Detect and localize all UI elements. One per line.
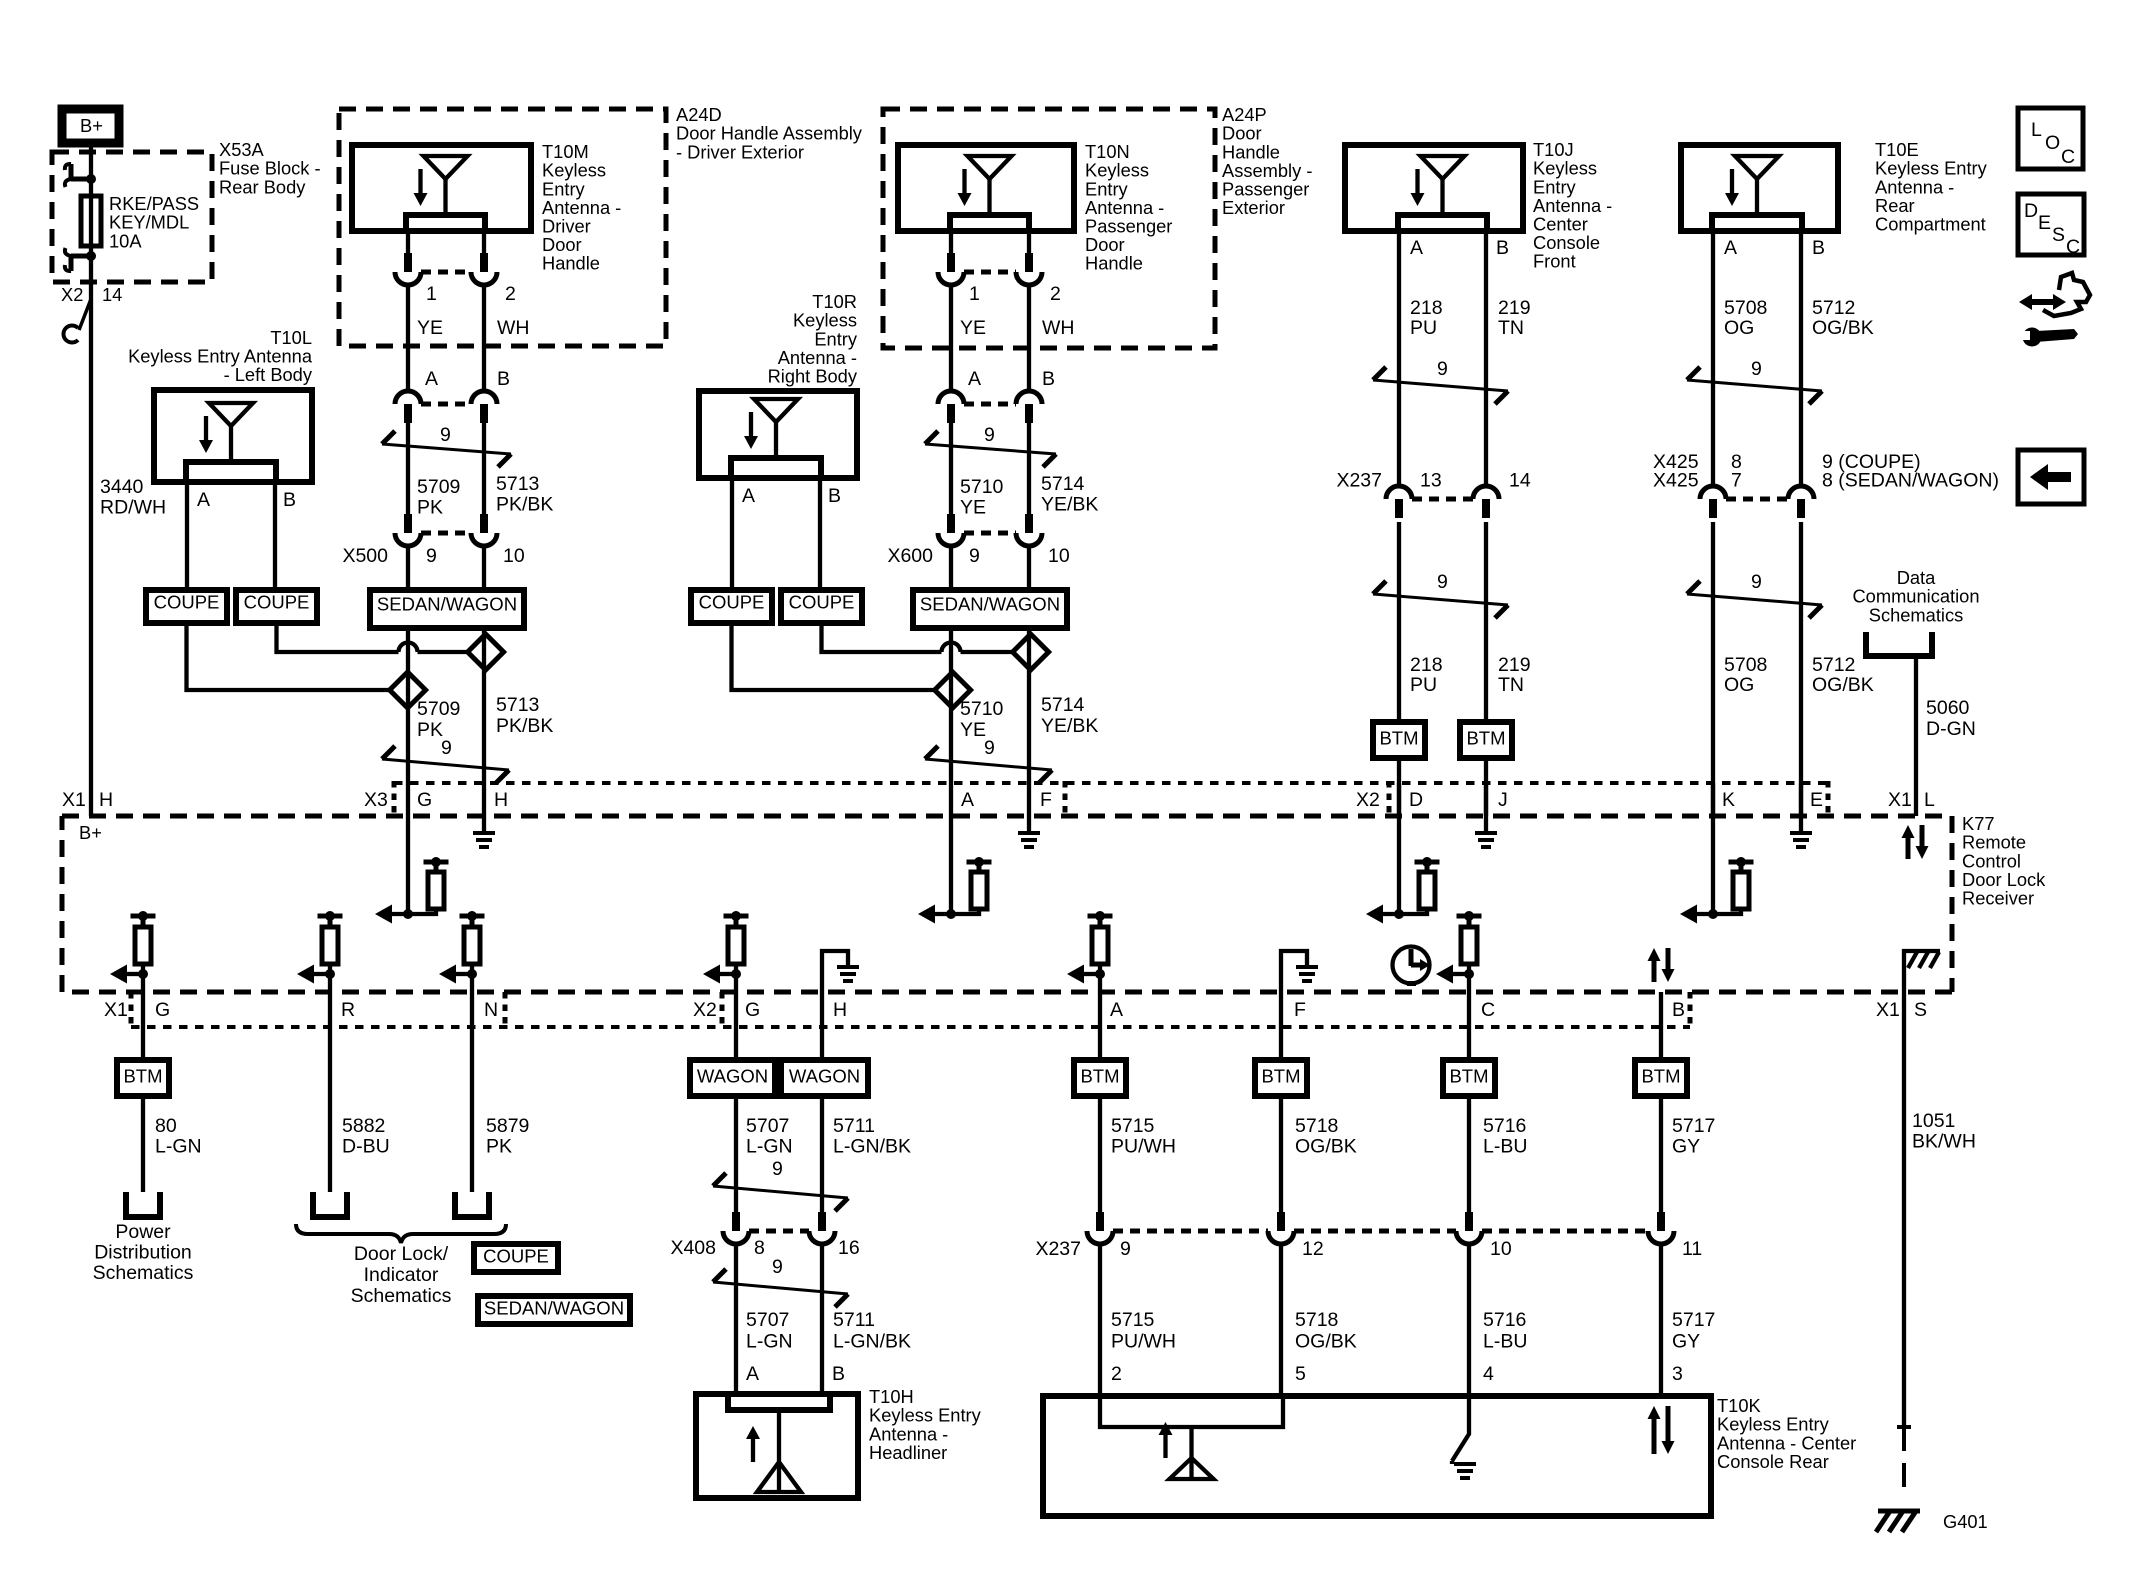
svg-text:PK/BK: PK/BK xyxy=(496,494,553,516)
connector X2 terminal curl xyxy=(79,299,91,330)
svg-text:BTM: BTM xyxy=(1466,727,1505,748)
inline connector A24P pin A xyxy=(938,391,964,404)
svg-text:H: H xyxy=(494,789,508,811)
WAGON box (5707) xyxy=(690,1060,775,1096)
svg-text:Receiver: Receiver xyxy=(1962,888,2034,909)
svg-text:X1: X1 xyxy=(62,789,86,811)
svg-text:5716: 5716 xyxy=(1483,1309,1526,1331)
inline connector A24D pin A xyxy=(395,391,421,404)
svg-text:B+: B+ xyxy=(80,115,103,136)
inline connector T10M pin 1 xyxy=(404,253,412,272)
svg-text:G: G xyxy=(745,999,760,1021)
svg-text:X2: X2 xyxy=(693,999,717,1021)
svg-text:5709: 5709 xyxy=(417,476,460,498)
svg-text:A: A xyxy=(746,1363,759,1385)
svg-text:5709: 5709 xyxy=(417,698,460,720)
icon back-arrow box xyxy=(2018,450,2084,504)
serial data symbol at pin L xyxy=(1906,837,1911,859)
svg-text:C: C xyxy=(2061,146,2075,168)
svg-text:O: O xyxy=(2045,132,2060,154)
svg-text:G: G xyxy=(417,789,432,811)
svg-text:2: 2 xyxy=(1111,1363,1122,1385)
svg-text:218: 218 xyxy=(1410,654,1443,676)
antenna T10M Keyless Entry Antenna - Driver Door Handle xyxy=(352,145,531,231)
svg-text:14: 14 xyxy=(102,284,122,305)
svg-text:5715: 5715 xyxy=(1111,1309,1155,1331)
wire COUPE B (right) to splice (hops over 5710) xyxy=(822,623,1013,652)
svg-text:PU/WH: PU/WH xyxy=(1111,1331,1176,1353)
svg-text:B: B xyxy=(497,368,510,390)
svg-text:5708: 5708 xyxy=(1724,297,1767,319)
icon LOC box xyxy=(2018,108,2083,169)
wire T10N pin 2 pigtail xyxy=(1027,231,1031,253)
svg-text:Indicator: Indicator xyxy=(364,1264,439,1286)
svg-text:C: C xyxy=(1481,999,1495,1021)
svg-text:9: 9 xyxy=(441,737,452,759)
inline connector T10N pin 2 xyxy=(1025,253,1033,272)
svg-text:9: 9 xyxy=(772,1256,783,1278)
assembly A24P dashed box xyxy=(883,109,1215,348)
inline connector X237 pin 12 xyxy=(1277,1212,1285,1231)
antenna input termination for pin G (X3) xyxy=(406,783,410,914)
antenna T10N Keyless Entry Antenna - Passenger Door Handle xyxy=(898,145,1074,231)
antenna output termination pin G (X1) xyxy=(131,914,156,919)
inline connector T10N pin 1 xyxy=(947,253,955,272)
dotted separator after N xyxy=(503,992,508,1029)
svg-text:5717: 5717 xyxy=(1672,1309,1715,1331)
inline connector X600 pin 9 xyxy=(947,514,955,533)
svg-text:BTM: BTM xyxy=(1379,727,1418,748)
svg-text:5712: 5712 xyxy=(1812,654,1855,676)
svg-text:5718: 5718 xyxy=(1295,1309,1338,1331)
svg-text:BTM: BTM xyxy=(1261,1065,1300,1086)
svg-text:SEDAN/WAGON: SEDAN/WAGON xyxy=(920,593,1060,614)
ground inside K77 at pin E xyxy=(1799,783,1803,831)
antenna output termination pin C xyxy=(1457,914,1482,919)
wire 5715 to T10K 2 xyxy=(1098,1244,1102,1396)
svg-text:WH: WH xyxy=(1042,317,1075,339)
SEDAN/WAGON box (left) xyxy=(370,590,524,628)
wire K77 pin A to BTM xyxy=(1098,974,1102,1060)
svg-text:B: B xyxy=(828,485,841,507)
svg-text:BK/WH: BK/WH xyxy=(1912,1131,1976,1153)
svg-text:L-GN: L-GN xyxy=(746,1331,793,1353)
svg-text:X2: X2 xyxy=(61,284,83,305)
svg-text:3440: 3440 xyxy=(100,476,144,498)
svg-text:219: 219 xyxy=(1498,297,1531,319)
K77 top connector dotted row xyxy=(394,781,1828,785)
svg-text:L-GN: L-GN xyxy=(155,1136,202,1158)
svg-text:E: E xyxy=(2038,212,2051,234)
inline connector X408 pin 8 xyxy=(732,1212,740,1231)
fuse RKE/PASS KEY/MDL 10A xyxy=(81,196,101,246)
svg-text:OG/BK: OG/BK xyxy=(1295,1136,1357,1158)
T10K internal switch to ground (pin 4) xyxy=(1452,1396,1469,1461)
inline connector X425 pin 8 xyxy=(1700,486,1726,499)
wire T10L pin B to COUPE xyxy=(273,482,277,590)
svg-text:YE/BK: YE/BK xyxy=(1041,715,1098,737)
svg-text:COUPE: COUPE xyxy=(789,591,855,612)
antenna input termination for pin A xyxy=(949,783,953,914)
svg-text:A: A xyxy=(1724,237,1737,259)
splice diamond (5710) xyxy=(935,672,971,708)
dotted separator after E xyxy=(1826,781,1831,816)
svg-text:5708: 5708 xyxy=(1724,654,1767,676)
svg-text:5714: 5714 xyxy=(1041,694,1085,716)
wire 1051 dashed continuation xyxy=(1897,1427,1911,1497)
splice diamond (5714) xyxy=(1013,634,1049,670)
inline connector X237 pin 11 xyxy=(1657,1212,1665,1231)
svg-text:A: A xyxy=(425,368,438,390)
svg-text:F: F xyxy=(1040,789,1052,811)
svg-text:Schematics: Schematics xyxy=(351,1285,452,1307)
svg-text:H: H xyxy=(99,789,113,811)
svg-text:5716: 5716 xyxy=(1483,1115,1526,1137)
connector dashes X237 xyxy=(1113,1229,1648,1234)
wire 5709 PK (A to X500) xyxy=(406,423,410,514)
wire 5712 OG/BK (below X425) xyxy=(1799,522,1803,816)
svg-text:WH: WH xyxy=(497,317,530,339)
svg-text:PK: PK xyxy=(486,1136,512,1158)
svg-text:10: 10 xyxy=(1048,545,1070,567)
svg-text:3: 3 xyxy=(1672,1363,1683,1385)
svg-text:F: F xyxy=(1294,999,1306,1021)
wire T10R pin A to COUPE xyxy=(730,478,734,590)
svg-text:OG: OG xyxy=(1724,317,1754,339)
svg-text:B: B xyxy=(283,489,296,511)
svg-text:9: 9 xyxy=(440,424,451,446)
wire 5716 L-BU xyxy=(1467,1096,1471,1212)
chassis ground at pin S with elbow xyxy=(1904,951,1940,992)
svg-text:5711: 5711 xyxy=(833,1115,875,1137)
dotted separator after F xyxy=(1063,781,1068,816)
svg-text:A: A xyxy=(1110,999,1123,1021)
brace for door lock/indicator reference xyxy=(296,1224,506,1243)
inline connector X237 pin 14 xyxy=(1473,486,1499,499)
dotted separator X2 (bottom) xyxy=(720,992,725,1029)
wire 5718 OG/BK xyxy=(1279,1096,1283,1212)
svg-text:L-BU: L-BU xyxy=(1483,1136,1527,1158)
COUPE box (T10R A) xyxy=(691,590,772,623)
svg-text:COUPE: COUPE xyxy=(699,591,765,612)
COUPE box (reference) xyxy=(474,1244,558,1272)
wire 219 TN (T10J B to X237) xyxy=(1484,231,1488,486)
wire K77 pin G to BTM xyxy=(141,974,145,1060)
svg-text:X1: X1 xyxy=(1888,789,1912,811)
terminator to power distribution schematics xyxy=(126,1192,160,1217)
svg-text:D-BU: D-BU xyxy=(342,1136,390,1158)
svg-text:X2: X2 xyxy=(1356,789,1380,811)
svg-text:L-GN/BK: L-GN/BK xyxy=(833,1136,911,1158)
splice diamond (5709) xyxy=(390,672,426,708)
svg-text:X600: X600 xyxy=(887,545,933,567)
svg-text:COUPE: COUPE xyxy=(483,1245,549,1266)
svg-text:5713: 5713 xyxy=(496,694,539,716)
wire 5712 OG/BK (T10E B to X425) xyxy=(1799,231,1803,486)
wire WH (T10M 2 to A24D B) xyxy=(482,285,486,391)
svg-text:5715: 5715 xyxy=(1111,1115,1155,1137)
svg-text:9: 9 xyxy=(1751,571,1762,593)
svg-text:9: 9 xyxy=(1751,358,1762,380)
svg-text:Console Rear: Console Rear xyxy=(1717,1451,1829,1472)
inline connector X237 pin 9 xyxy=(1096,1212,1104,1231)
svg-text:BTM: BTM xyxy=(1080,1065,1119,1086)
wire 5710 YE xyxy=(949,423,953,514)
svg-text:X3: X3 xyxy=(364,789,388,811)
svg-text:PK/BK: PK/BK xyxy=(496,715,553,737)
svg-text:BTM: BTM xyxy=(1641,1065,1680,1086)
svg-text:X1: X1 xyxy=(104,999,128,1021)
wire 5709 to SEDAN/WAGON xyxy=(406,546,410,590)
svg-text:A: A xyxy=(968,368,981,390)
BTM box (218) xyxy=(1373,722,1425,758)
svg-text:E: E xyxy=(1810,789,1823,811)
svg-text:Distribution: Distribution xyxy=(94,1242,192,1264)
K77 Remote Control Door Lock Receiver dashed outline xyxy=(62,816,1952,992)
wire 218 PU (T10J A to X237) xyxy=(1397,231,1401,486)
wire K77 pin N down xyxy=(470,974,474,1192)
wire YE (T10M 1 to A24D A) xyxy=(406,285,410,391)
wire 5707 L-GN xyxy=(734,1096,738,1212)
wire WH (T10N) xyxy=(1027,285,1031,391)
WAGON box (5711) xyxy=(781,1060,868,1096)
svg-text:YE: YE xyxy=(960,497,986,519)
dotted separator X1 (bottom) xyxy=(129,992,134,1029)
wire COUPE A to splice xyxy=(187,623,390,690)
COUPE box (T10R B) xyxy=(781,590,862,623)
wire 5708 OG (T10E A to X425) xyxy=(1711,231,1715,486)
ground inside K77 at pin H (X3) xyxy=(482,783,486,831)
svg-text:Power: Power xyxy=(115,1221,171,1243)
svg-text:B+: B+ xyxy=(79,822,102,843)
wire 5708 OG (below X425) xyxy=(1711,522,1715,816)
svg-text:9: 9 xyxy=(772,1158,783,1180)
svg-text:D: D xyxy=(1409,789,1423,811)
svg-text:TN: TN xyxy=(1498,674,1524,696)
svg-text:D: D xyxy=(2024,200,2038,222)
svg-text:L-BU: L-BU xyxy=(1483,1331,1527,1353)
inline connector X237 pin 10 xyxy=(1465,1212,1473,1231)
svg-text:12: 12 xyxy=(1302,1238,1324,1260)
wire 219 to K77 J xyxy=(1484,758,1488,816)
splice diamond (5713) xyxy=(468,634,504,670)
wire 5715 PU/WH xyxy=(1098,1096,1102,1212)
wire COUPE A (right) to splice xyxy=(732,623,935,690)
svg-text:L-GN/BK: L-GN/BK xyxy=(833,1331,911,1353)
antenna T10R Keyless Entry Antenna - Right Body xyxy=(699,391,857,478)
svg-text:218: 218 xyxy=(1410,297,1443,319)
terminator to data communication schematics xyxy=(1866,632,1932,656)
svg-text:G401: G401 xyxy=(1943,1511,1988,1532)
svg-text:7: 7 xyxy=(1731,470,1742,492)
wire 5060 D-GN xyxy=(1914,656,1918,816)
antenna T10K Keyless Entry Antenna - Center Console Rear xyxy=(1043,1396,1711,1516)
wire 5710 to SEDAN/WAGON xyxy=(949,546,953,590)
T10K internal antenna element xyxy=(1100,1396,1283,1427)
svg-text:YE: YE xyxy=(960,719,986,741)
BTM box (5716) xyxy=(1443,1060,1495,1096)
inline connector X408 pin 16 xyxy=(818,1212,826,1231)
svg-text:S: S xyxy=(2052,224,2065,246)
svg-text:OG: OG xyxy=(1724,674,1754,696)
wire 80 L-GN xyxy=(141,1096,145,1192)
SEDAN/WAGON box (reference) xyxy=(478,1296,630,1324)
svg-text:SEDAN/WAGON: SEDAN/WAGON xyxy=(377,593,517,614)
svg-text:B: B xyxy=(1812,237,1825,259)
svg-text:YE: YE xyxy=(417,317,443,339)
svg-text:L: L xyxy=(2031,119,2042,141)
wire 1051 BK/WH xyxy=(1902,992,1906,1427)
wire T10L pin A to COUPE xyxy=(185,482,189,590)
icon DESC box xyxy=(2018,194,2084,255)
wire K77 pin R down xyxy=(328,974,332,1192)
svg-text:9: 9 xyxy=(1120,1238,1131,1260)
svg-text:PU: PU xyxy=(1410,674,1437,696)
ground G401 xyxy=(1878,1509,1920,1514)
svg-text:13: 13 xyxy=(1420,470,1442,492)
svg-text:GY: GY xyxy=(1672,1136,1700,1158)
svg-text:5717: 5717 xyxy=(1672,1115,1715,1137)
dotted separator after B xyxy=(1688,992,1693,1029)
ground inside K77 at pin H (X2) with elbow xyxy=(822,951,848,992)
inline connector X600 pin 10 xyxy=(1025,514,1033,533)
fuse block X53A dashed box xyxy=(52,152,212,282)
svg-text:N: N xyxy=(484,999,498,1021)
ground inside K77 at pin F with elbow xyxy=(1281,951,1307,992)
antenna T10J Keyless Entry Antenna - Center Console Front xyxy=(1345,145,1523,231)
terminator (5879) xyxy=(455,1192,489,1217)
svg-text:GY: GY xyxy=(1672,1331,1700,1353)
svg-text:WAGON: WAGON xyxy=(789,1065,860,1086)
svg-text:YE: YE xyxy=(960,317,986,339)
ground inside K77 at pin F xyxy=(1027,783,1031,831)
svg-text:L-GN: L-GN xyxy=(746,1136,793,1158)
svg-text:R: R xyxy=(341,999,355,1021)
svg-text:9: 9 xyxy=(984,424,995,446)
svg-text:BTM: BTM xyxy=(1449,1065,1488,1086)
antenna output termination pin A xyxy=(1088,914,1113,919)
BTM box (5715) xyxy=(1074,1060,1126,1096)
COUPE box (T10L B) xyxy=(236,590,317,623)
svg-text:YE/BK: YE/BK xyxy=(1041,494,1098,516)
svg-text:9: 9 xyxy=(1437,571,1448,593)
wire 5711 L-GN/BK xyxy=(820,1096,824,1212)
wire 218 PU (below X237) xyxy=(1397,522,1401,722)
wire 5709 below box xyxy=(406,628,410,783)
svg-text:COUPE: COUPE xyxy=(154,591,220,612)
svg-text:219: 219 xyxy=(1498,654,1531,676)
wire 5717 GY xyxy=(1659,1096,1663,1212)
svg-text:X500: X500 xyxy=(342,545,388,567)
svg-text:10: 10 xyxy=(503,545,525,567)
svg-text:OG/BK: OG/BK xyxy=(1295,1331,1357,1353)
terminator (5882) xyxy=(313,1192,347,1217)
svg-text:Handle: Handle xyxy=(1085,253,1143,274)
ground inside K77 at pin J xyxy=(1484,783,1488,831)
svg-text:8: 8 xyxy=(754,1237,765,1259)
svg-text:A: A xyxy=(961,789,974,811)
svg-text:PK: PK xyxy=(417,497,443,519)
inline connector A24P pin B xyxy=(1016,391,1042,404)
svg-text:Exterior: Exterior xyxy=(1222,197,1285,218)
antenna T10H Keyless Entry Antenna - Headliner xyxy=(696,1394,858,1498)
svg-text:5710: 5710 xyxy=(960,698,1004,720)
svg-text:D-GN: D-GN xyxy=(1926,718,1976,740)
T10K serial data symbol (pin 3) xyxy=(1652,1418,1657,1454)
svg-text:A: A xyxy=(1410,237,1423,259)
wire K77 pin G(X2) to WAGON xyxy=(734,974,738,1060)
wire B+ feed from B+ box through fuse block down to K77 X1 pin H xyxy=(89,147,93,816)
dotted separator X2 xyxy=(1387,781,1392,816)
serial data symbol at pin B xyxy=(1652,960,1657,982)
wire 5713 to SEDAN/WAGON xyxy=(482,546,486,590)
svg-text:BTM: BTM xyxy=(123,1065,162,1086)
svg-text:5707: 5707 xyxy=(746,1115,789,1137)
wire 5711 to T10H B xyxy=(820,1244,824,1394)
svg-text:X1: X1 xyxy=(1876,999,1900,1021)
svg-text:1: 1 xyxy=(426,283,437,305)
power feed B+ terminal box xyxy=(62,109,119,143)
wire T10M pin 2 pigtail xyxy=(482,231,486,253)
svg-text:B: B xyxy=(1672,999,1685,1021)
BTM box (5717) xyxy=(1635,1060,1687,1096)
fuse terminal clip top xyxy=(71,164,91,179)
svg-text:80: 80 xyxy=(155,1115,177,1137)
svg-text:11: 11 xyxy=(1682,1238,1702,1260)
svg-text:C: C xyxy=(2066,236,2080,258)
COUPE box (T10L A) xyxy=(146,590,227,623)
wire 5713 below box xyxy=(482,628,486,783)
BTM box (219) xyxy=(1460,722,1512,758)
svg-text:2: 2 xyxy=(1050,283,1061,305)
svg-text:1051: 1051 xyxy=(1912,1110,1955,1132)
inline connector T10M pin 2 xyxy=(480,253,488,272)
svg-text:Schematics: Schematics xyxy=(1869,604,1964,625)
svg-text:Front: Front xyxy=(1533,251,1576,272)
svg-text:A: A xyxy=(742,485,755,507)
svg-text:TN: TN xyxy=(1498,317,1524,339)
wire 5707 to T10H A xyxy=(734,1244,738,1394)
svg-text:H: H xyxy=(833,999,847,1021)
svg-text:G: G xyxy=(155,999,170,1021)
svg-text:OG/BK: OG/BK xyxy=(1812,317,1874,339)
wire K77 pin C to BTM xyxy=(1467,974,1471,1060)
fuse terminal clip bottom xyxy=(71,256,91,271)
inline connector X237 pin 13 xyxy=(1386,486,1412,499)
wire K77 pin F to BTM xyxy=(1279,992,1283,1060)
inline connector X500 pin 10 xyxy=(480,514,488,533)
svg-text:Rear Body: Rear Body xyxy=(219,176,306,197)
svg-text:5712: 5712 xyxy=(1812,297,1855,319)
svg-text:B: B xyxy=(832,1363,845,1385)
antenna T10L Keyless Entry Antenna - Left Body xyxy=(154,390,312,482)
wire K77 pin H(X2) to WAGON xyxy=(820,992,824,1060)
svg-text:9: 9 xyxy=(969,545,980,567)
svg-text:OG/BK: OG/BK xyxy=(1812,674,1874,696)
wire 5714 to SEDAN/WAGON xyxy=(1027,546,1031,590)
assembly A24D dashed box xyxy=(339,109,666,346)
wire 5717 to T10K 3 xyxy=(1659,1244,1663,1396)
svg-text:8 (SEDAN/WAGON): 8 (SEDAN/WAGON) xyxy=(1822,470,1999,492)
svg-text:X425: X425 xyxy=(1653,470,1699,492)
svg-text:L: L xyxy=(1924,789,1935,811)
svg-text:5879: 5879 xyxy=(486,1115,529,1137)
inline connector A24D pin B xyxy=(471,391,497,404)
svg-text:Schematics: Schematics xyxy=(93,1262,194,1284)
svg-text:WAGON: WAGON xyxy=(697,1065,768,1086)
svg-text:9: 9 xyxy=(984,737,995,759)
wire 5713 PK/BK (B to X500) xyxy=(482,423,486,514)
